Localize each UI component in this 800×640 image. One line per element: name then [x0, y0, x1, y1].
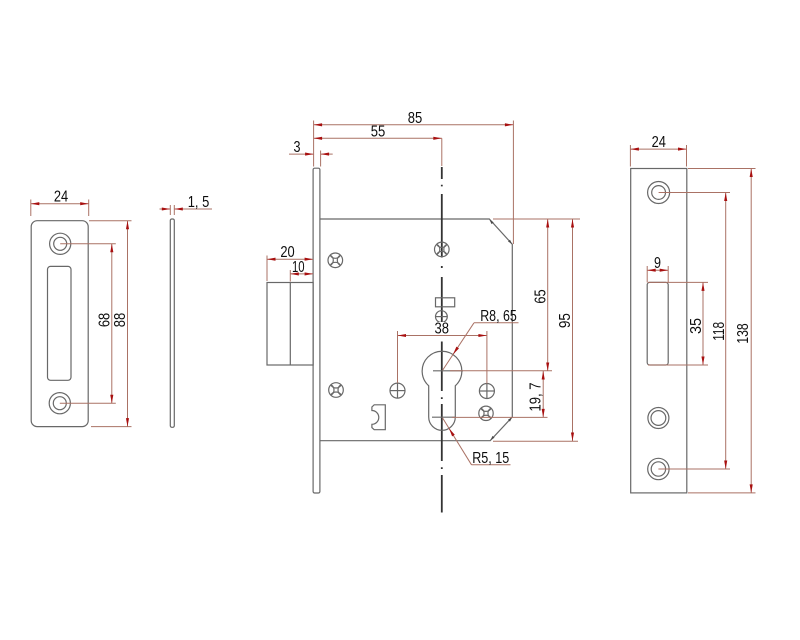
strike plate bottom hole — [49, 393, 70, 414]
dim 138 (faceplate height) — [688, 168, 756, 170]
strike plate slot — [48, 266, 72, 380]
slotted screw — [436, 311, 448, 323]
svg-text:95: 95 — [557, 313, 574, 328]
svg-text:88: 88 — [112, 313, 129, 328]
small rectangle window — [436, 298, 455, 307]
deadbolt — [267, 283, 313, 366]
svg-text:65: 65 — [533, 289, 550, 303]
svg-text:9: 9 — [654, 255, 661, 272]
svg-text:118: 118 — [711, 322, 728, 341]
dim 68 (hole spacing) — [60, 243, 116, 245]
svg-text:R5, 15: R5, 15 — [472, 450, 509, 467]
deadbolt division line — [289, 283, 291, 366]
chamfer tick bottom-right end — [508, 417, 512, 421]
chamfer tick top-right end — [508, 240, 512, 244]
svg-text:138: 138 — [735, 323, 752, 343]
chamfer tick bottom corner — [490, 436, 494, 440]
fixing hole right (+) — [479, 384, 494, 399]
dim 3 (faceplate thickness) — [320, 151, 322, 167]
svg-text:35: 35 — [688, 318, 705, 334]
dim 24 (faceplate width) — [629, 145, 631, 167]
faceplate slot — [647, 282, 668, 365]
svg-text:3: 3 — [294, 139, 301, 156]
dim 10 (bolt step) — [289, 270, 291, 282]
leader R5,15 (keyhole small radius) — [442, 417, 472, 465]
fixing hole left (+) — [390, 383, 405, 398]
centre line (vertical axis) — [441, 167, 443, 513]
svg-text:38: 38 — [434, 321, 449, 338]
dim 38 (fixing hole spacing) — [397, 331, 399, 383]
lock body outline with chamfered right corners — [320, 219, 512, 441]
strike plate top hole — [50, 233, 71, 254]
dim 55 (backset) — [314, 137, 442, 139]
lock faceplate strip (centre view) — [313, 168, 320, 493]
dim 88 (plate height) — [89, 220, 132, 222]
dim 9 (slot width) — [646, 266, 648, 282]
keyhole centre ticks — [433, 370, 463, 372]
strike plate side view (thin) — [170, 219, 174, 427]
torx screw top-centre — [435, 242, 450, 257]
euro profile keyhole — [422, 351, 462, 430]
torx screw upper-left — [328, 253, 343, 268]
svg-text:24: 24 — [652, 134, 666, 151]
dim 35 (slot height) — [648, 281, 708, 283]
torx screw lower-left — [329, 383, 344, 398]
lock faceplate (right view) — [631, 169, 687, 493]
dim 19,7 — [452, 416, 548, 418]
chamfer tick top corner — [490, 220, 494, 224]
dim 65 (keyhole centre from top) — [493, 218, 580, 220]
strike plate body (left view) — [31, 221, 88, 427]
dim 85 (body depth) — [313, 121, 315, 167]
dim 95 (body height) — [493, 440, 578, 442]
svg-text:10: 10 — [292, 259, 305, 276]
faceplate top hole — [648, 182, 670, 204]
dim 1,5 (plate thickness) — [169, 205, 171, 215]
svg-text:55: 55 — [371, 123, 386, 140]
svg-text:R8, 65: R8, 65 — [480, 308, 517, 325]
svg-text:24: 24 — [54, 189, 68, 206]
dim 20 (bolt throw) — [266, 256, 268, 282]
svg-text:19, 7: 19, 7 — [528, 382, 545, 411]
torx screw lower-right — [479, 406, 493, 420]
dim 24 (strike plate width) — [30, 200, 32, 217]
svg-text:85: 85 — [408, 110, 423, 127]
svg-text:1, 5: 1, 5 — [188, 194, 210, 211]
faceplate middle hole — [648, 408, 669, 429]
leader R8,65 (keyhole radius) — [442, 323, 474, 371]
latch follower bracket (bottom-left) — [372, 405, 385, 430]
dim 118 (hole spacing) — [659, 192, 730, 194]
faceplate bottom hole — [648, 458, 669, 479]
svg-text:68: 68 — [96, 313, 113, 327]
